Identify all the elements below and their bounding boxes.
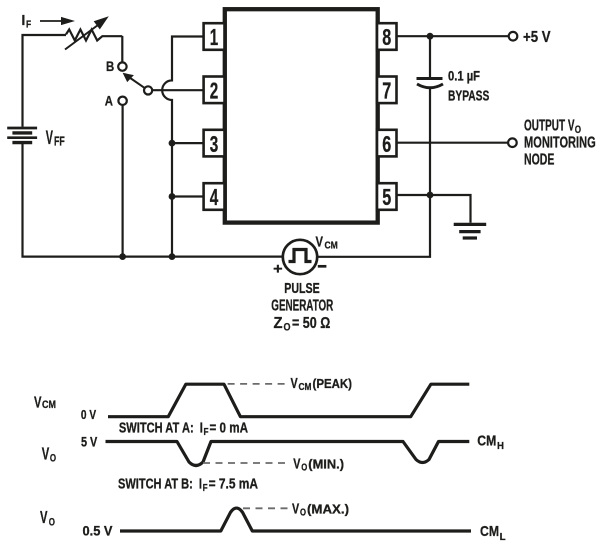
junction dot pin5 / bypass rail — [427, 192, 434, 199]
pin 6 box — [377, 130, 397, 157]
svg-text:0 V: 0 V — [81, 407, 96, 422]
svg-text:(MIN.): (MIN.) — [308, 458, 344, 472]
label OUTPUT VO — [524, 118, 581, 136]
junction dot pin1-net / bottom rail — [169, 253, 176, 260]
junction dot pin8 / bypass rail — [427, 33, 434, 40]
svg-text:H: H — [497, 440, 504, 452]
switch wiper arrow — [123, 73, 145, 88]
label VO waveform middle — [42, 443, 57, 464]
label IF — [22, 13, 32, 30]
svg-text:(PEAK): (PEAK) — [313, 377, 353, 391]
wire pin8 to +5V terminal — [397, 35, 509, 37]
svg-text:F: F — [26, 19, 32, 31]
wire pin4 to pin1 net — [172, 195, 204, 197]
VCM waveform trace — [108, 384, 469, 417]
label CMH — [477, 433, 504, 452]
svg-text:O: O — [300, 506, 306, 518]
svg-text:OUTPUT V: OUTPUT V — [524, 118, 575, 135]
svg-text:0.5 V: 0.5 V — [83, 524, 113, 539]
label CML — [480, 523, 506, 543]
capacitor C1 0.1uF bypass — [417, 79, 444, 88]
svg-text:BYPASS: BYPASS — [448, 87, 489, 104]
junction dot A-wire / bottom rail — [119, 253, 126, 260]
svg-text:O: O — [50, 452, 57, 464]
switch terminal A — [118, 97, 126, 105]
pulse generator source — [283, 240, 317, 274]
label - polarity — [318, 265, 327, 268]
IC body U1 — [225, 9, 378, 222]
label VFF — [46, 127, 65, 149]
junction dot at pin3 wire — [169, 140, 176, 147]
arrow IF direction — [40, 17, 75, 25]
pin 1 box — [204, 23, 225, 50]
wire pin3 to pin1 net — [172, 142, 204, 144]
wire pin6 to output terminal — [397, 142, 509, 144]
svg-text:1: 1 — [210, 24, 219, 50]
switch pole circle — [144, 86, 152, 94]
pin 4 box — [204, 183, 225, 210]
wire pole to pin2 — [152, 89, 204, 91]
pin 2 box — [204, 77, 225, 104]
svg-text:= 50 Ω: = 50 Ω — [292, 315, 330, 332]
svg-text:(MAX.): (MAX.) — [307, 502, 349, 516]
svg-text:B: B — [106, 59, 114, 74]
svg-text:F: F — [203, 483, 208, 494]
VO 0.5V waveform trace — [120, 508, 471, 531]
pin 8 box — [377, 23, 397, 50]
svg-text:V: V — [291, 375, 298, 392]
svg-text:CM: CM — [480, 523, 499, 540]
pin 3 box — [204, 130, 225, 157]
label VCM(PEAK) — [291, 375, 353, 393]
svg-text:NODE: NODE — [524, 152, 555, 169]
svg-text:V: V — [316, 235, 324, 251]
svg-text:GENERATOR: GENERATOR — [271, 297, 333, 314]
svg-text:4: 4 — [210, 184, 219, 210]
svg-text:CM: CM — [477, 433, 496, 450]
svg-text:V: V — [292, 500, 299, 517]
svg-text:MONITORING: MONITORING — [524, 135, 596, 152]
svg-text:5: 5 — [382, 184, 391, 210]
wire switch A down to bottom rail — [121, 105, 123, 257]
pin 5 box — [377, 183, 397, 210]
svg-text:CM: CM — [299, 381, 312, 393]
svg-text:O: O — [301, 462, 307, 474]
ground symbol — [454, 224, 487, 238]
svg-text:CM: CM — [325, 239, 338, 251]
wire pin5 to ground — [397, 195, 471, 223]
svg-text:2: 2 — [210, 78, 219, 104]
svg-text:I: I — [22, 13, 26, 29]
svg-text:F: F — [204, 427, 209, 438]
label VCM waveform — [34, 395, 56, 412]
svg-text:A: A — [105, 93, 113, 108]
switch terminal B — [118, 62, 126, 70]
svg-text:0.1 µF: 0.1 µF — [448, 68, 480, 84]
svg-text:+: + — [273, 260, 283, 277]
svg-text:CM: CM — [42, 399, 56, 411]
svg-text:+5 V: +5 V — [523, 29, 551, 46]
svg-text:V: V — [46, 127, 53, 149]
label ZO = 50 ohm — [274, 315, 331, 334]
svg-text:V: V — [34, 395, 42, 412]
svg-text:O: O — [284, 322, 291, 334]
battery VFF — [7, 128, 37, 143]
wire bypass rail upper — [429, 36, 431, 78]
label VO waveform bottom — [40, 507, 55, 528]
svg-text:PULSE: PULSE — [284, 281, 320, 297]
svg-text:FF: FF — [54, 133, 65, 148]
wire left rail bottom — [23, 144, 283, 257]
svg-text:7: 7 — [382, 78, 391, 104]
variable resistor (IF adjust) — [65, 16, 122, 49]
wire to switch B — [121, 36, 123, 62]
svg-text:L: L — [500, 531, 507, 543]
svg-text:Z: Z — [274, 315, 284, 332]
svg-text:V: V — [40, 507, 48, 527]
wire pin1 net with hop over pin2 wire — [162, 37, 204, 257]
wire left rail top — [23, 35, 67, 127]
svg-text:8: 8 — [382, 24, 391, 50]
+5V terminal circle — [509, 32, 518, 41]
output terminal circle — [508, 138, 517, 147]
svg-text:O: O — [49, 516, 56, 528]
label VO(MAX.) — [292, 500, 349, 518]
svg-text:5 V: 5 V — [81, 435, 97, 450]
dashed leader VCM(PEAK) — [228, 383, 286, 385]
svg-text:SWITCH AT A: I: SWITCH AT A: I — [119, 421, 203, 437]
svg-text:V: V — [293, 456, 300, 473]
label VO(MIN.) — [293, 456, 344, 474]
label SWITCH AT B — [118, 477, 258, 495]
svg-text:= 7.5 mA: = 7.5 mA — [209, 477, 259, 493]
svg-text:3: 3 — [210, 131, 219, 157]
svg-text:6: 6 — [382, 131, 391, 157]
pin 7 box — [377, 77, 397, 104]
VO 5V waveform trace — [106, 442, 470, 466]
svg-text:SWITCH AT B: I: SWITCH AT B: I — [118, 477, 202, 493]
svg-text:V: V — [42, 443, 50, 463]
label SWITCH AT A — [119, 421, 249, 439]
label VCM at pulse generator — [316, 235, 338, 252]
wire bypass rail lower down to bottom and to pulse generator — [317, 88, 430, 257]
svg-text:= 0 mA: = 0 mA — [210, 421, 249, 437]
junction dot at pin4 wire — [169, 193, 176, 200]
dashed leader VO(MIN.) — [203, 462, 285, 464]
dashed leader VO(MAX.) — [243, 507, 288, 509]
